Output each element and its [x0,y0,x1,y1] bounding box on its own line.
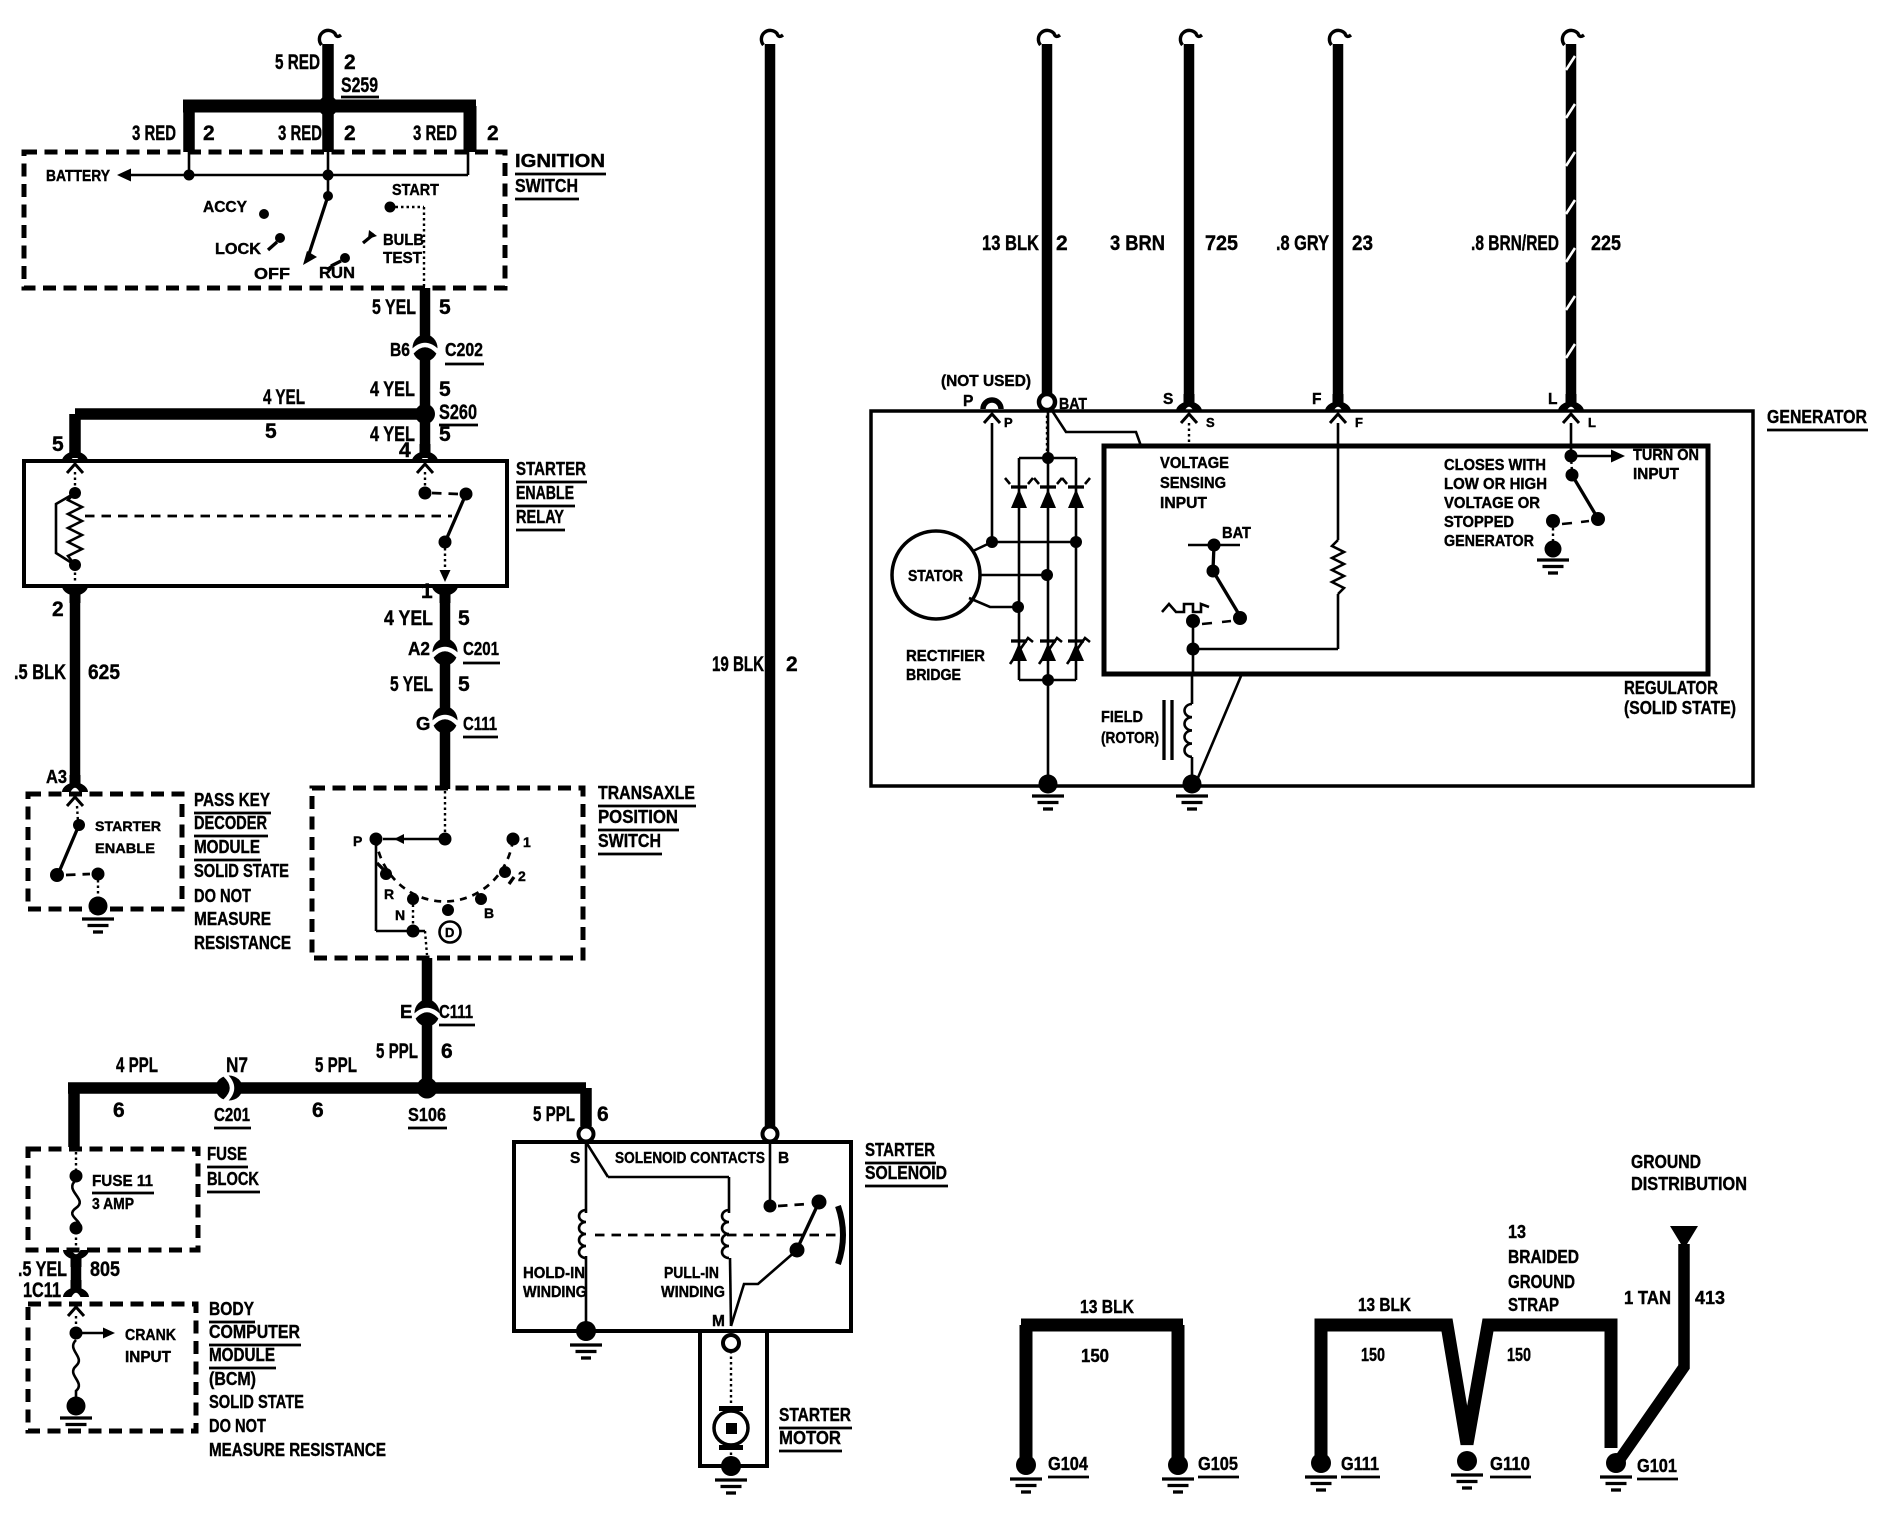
svg-text:MEASURE RESISTANCE: MEASURE RESISTANCE [209,1439,386,1460]
svg-text:3 BRN: 3 BRN [1110,232,1165,255]
svg-text:VOLTAGE: VOLTAGE [1160,455,1229,472]
contact N [395,893,419,923]
svg-text:GROUND: GROUND [1631,1151,1701,1172]
svg-text:STATOR: STATOR [908,568,963,585]
wire .5 YEL 805 fuse to BCM [18,1250,120,1302]
svg-text:(ROTOR): (ROTOR) [1101,730,1159,747]
svg-text:4: 4 [399,439,411,462]
svg-text:.5 YEL: .5 YEL [18,1258,67,1281]
terminal S [1163,391,1215,446]
svg-text:TEST: TEST [383,250,423,267]
svg-text:3 RED: 3 RED [278,122,322,145]
svg-text:R: R [384,886,394,902]
svg-text:D: D [445,925,454,940]
voltage sensing lever [1207,545,1248,625]
svg-text:1: 1 [421,580,433,603]
svg-text:E: E [400,1001,412,1022]
svg-text:(NOT USED): (NOT USED) [941,373,1031,390]
starter enable relay box [24,461,507,586]
svg-text:S260: S260 [439,401,477,424]
svg-text:STARTER: STARTER [779,1404,851,1425]
svg-text:CLOSES WITH: CLOSES WITH [1444,457,1546,474]
svg-text:WINDING: WINDING [523,1284,587,1301]
contact R [377,863,394,902]
terminal BAT [1039,394,1087,455]
svg-text:STARTER: STARTER [95,818,161,834]
svg-text:WINDING: WINDING [661,1284,725,1301]
svg-text:2: 2 [52,598,64,621]
svg-text:150: 150 [1361,1344,1385,1365]
wire 5 YEL below ignition switch [372,288,451,340]
label STARTER MOTOR [779,1404,852,1451]
svg-text:3 RED: 3 RED [132,122,176,145]
diode column 1 [1005,458,1033,680]
ground in regulator [1537,528,1569,573]
svg-text:13: 13 [1508,1221,1526,1242]
svg-text:IGNITION: IGNITION [515,150,605,171]
svg-text:DISTRIBUTION: DISTRIBUTION [1631,1173,1747,1194]
svg-text:DO NOT: DO NOT [194,885,252,906]
svg-text:6: 6 [113,1099,125,1122]
svg-text:2: 2 [344,51,356,74]
svg-text:DO NOT: DO NOT [209,1415,267,1436]
svg-text:BAT: BAT [1222,525,1251,542]
contact D [440,904,461,943]
label 5 RED 2 [275,51,356,74]
contact RUN [319,253,355,282]
svg-text:2: 2 [518,868,526,884]
field rotor winding [1164,676,1192,780]
wire 4 YEL C202 to S260 [370,357,451,407]
splice S259 [318,74,379,116]
fixed contact bar [838,1206,843,1264]
svg-text:SENSING: SENSING [1160,475,1226,492]
svg-text:C111: C111 [463,713,497,734]
svg-text:ENABLE: ENABLE [95,840,155,856]
svg-text:MOTOR: MOTOR [779,1427,841,1448]
ground G101 [1600,1453,1678,1490]
svg-text:S: S [570,1150,580,1167]
svg-text:2: 2 [344,122,356,145]
svg-text:TRANSAXLE: TRANSAXLE [598,782,695,803]
svg-text:1: 1 [523,834,531,850]
label STARTER ENABLE RELAY [516,458,587,530]
svg-text:225: 225 [1591,232,1621,255]
node feed into switch [383,791,452,846]
relay switch [419,487,473,583]
terminal F [1312,391,1363,446]
svg-text:6: 6 [441,1040,453,1063]
svg-text:5: 5 [439,296,451,319]
svg-text:STARTER: STARTER [516,458,586,479]
svg-text:5 PPL: 5 PPL [533,1103,575,1126]
svg-text:(SOLID STATE): (SOLID STATE) [1624,697,1736,718]
svg-text:G101: G101 [1637,1455,1677,1476]
svg-text:13 BLK: 13 BLK [1358,1294,1412,1315]
svg-text:S106: S106 [408,1104,446,1125]
svg-text:A3: A3 [46,766,67,787]
ground G104 [1010,1453,1089,1492]
connector C111 pin E [400,1000,475,1027]
connector C111 pin G [416,707,498,738]
svg-text:P: P [963,393,973,410]
terminal L [1548,391,1596,453]
label CLOSES WITH LOW OR HIGH VOLTAGE OR STOPPED GENERATOR [1444,457,1547,550]
svg-text:6: 6 [312,1099,324,1122]
stator [892,531,980,619]
labels 3 RED 2 [132,122,499,145]
wire .5 BLK 625 relay to A3 [14,586,120,780]
splice S260 [415,401,478,425]
svg-text:FUSE 11: FUSE 11 [92,1173,153,1190]
svg-text:BODY: BODY [209,1298,255,1319]
svg-text:COMPUTER: COMPUTER [209,1321,300,1342]
svg-text:5 RED: 5 RED [275,51,320,74]
svg-text:GROUND: GROUND [1508,1271,1575,1292]
svg-text:A2: A2 [408,638,430,659]
svg-text:.8 GRY: .8 GRY [1276,232,1329,255]
svg-text:4 YEL: 4 YEL [263,386,305,409]
label RECTIFIER BRIDGE [906,648,985,684]
svg-text:(BCM): (BCM) [209,1368,256,1389]
label FIELD (ROTOR) [1101,709,1159,747]
svg-text:BATTERY: BATTERY [46,168,111,185]
contact START [385,182,440,288]
svg-text:G110: G110 [1490,1453,1530,1474]
svg-text:5 PPL: 5 PPL [315,1054,357,1077]
relay actuator dashed link [85,515,452,518]
label IGNITION SWITCH [515,150,606,199]
svg-text:MODULE: MODULE [209,1344,275,1365]
svg-text:FIELD: FIELD [1101,709,1143,726]
svg-text:4 YEL: 4 YEL [370,378,415,401]
ground at hold-in winding [570,1321,602,1358]
svg-text:150: 150 [1507,1344,1531,1365]
svg-text:N7: N7 [226,1054,248,1077]
svg-text:5 YEL: 5 YEL [372,296,416,319]
svg-text:BRAIDED: BRAIDED [1508,1246,1579,1267]
svg-text:INPUT: INPUT [1633,466,1680,483]
svg-text:B: B [484,905,494,921]
svg-text:G: G [416,713,430,734]
svg-text:5: 5 [265,420,277,443]
svg-text:5: 5 [52,433,64,456]
svg-text:S: S [1163,391,1173,408]
pass key decoder module box [28,794,182,909]
lamp driver switch [1546,456,1605,528]
splice S106 [408,1078,447,1129]
svg-text:3 RED: 3 RED [413,122,457,145]
starter solenoid box [514,1142,851,1331]
crank input node [68,1307,115,1340]
rotor contact arc [376,839,513,901]
svg-text:SWITCH: SWITCH [598,830,661,851]
wire 1 TAN 413 [1620,1226,1725,1459]
svg-text:805: 805 [90,1258,120,1281]
svg-text:RECTIFIER: RECTIFIER [906,648,985,665]
ground at starter motor [715,1456,747,1493]
relay coil [56,487,82,581]
svg-text:G104: G104 [1048,1453,1089,1474]
svg-text:B6: B6 [390,339,410,360]
wire 5 PPL to S106 [376,1024,453,1088]
contact LOCK [215,233,285,258]
label 5 PPL 6 right [533,1103,609,1126]
svg-text:413: 413 [1695,1287,1725,1308]
svg-text:6: 6 [597,1103,609,1126]
label CRANK INPUT [125,1327,177,1366]
wire 19 BLK battery feed [712,30,798,1126]
BCM internal resistance to ground [60,1340,92,1431]
svg-text:C201: C201 [463,638,499,659]
voltage sensing switch BAT contact [1188,525,1251,552]
svg-text:DECODER: DECODER [194,812,267,833]
wire 13 BLK G111 to G110 braided strap to G101 [1321,1294,1611,1459]
connector C202 pin B6 [390,335,484,365]
svg-text:C111: C111 [439,1001,473,1022]
svg-text:BLOCK: BLOCK [207,1168,259,1189]
node BATTERY bus [117,152,468,182]
svg-text:P: P [1004,415,1013,430]
svg-text:SOLID STATE: SOLID STATE [209,1391,304,1412]
svg-text:625: 625 [88,661,120,684]
label FUSE 11 3 AMP [92,1173,154,1213]
connector A3 [46,766,88,792]
svg-text:C201: C201 [214,1104,250,1125]
label PULL-IN WINDING [661,1265,725,1301]
svg-text:P: P [353,833,362,849]
contact P [353,833,383,850]
svg-text:STOPPED: STOPPED [1444,514,1514,531]
label HOLD-IN WINDING [523,1265,587,1301]
svg-text:START: START [392,182,439,199]
svg-text:ACCY: ACCY [203,199,248,216]
wire .8 GRY to F [1276,30,1373,396]
ignition switch box [24,152,505,288]
diode column 2 [1034,458,1062,680]
label GROUND DISTRIBUTION [1631,1151,1747,1194]
rectifier bridge bus [1019,412,1076,782]
ground G110 [1451,1451,1531,1488]
svg-text:CRANK: CRANK [125,1327,177,1344]
terminal P (not used) [941,373,1031,542]
ground G111 [1305,1453,1380,1490]
regulator box [1104,446,1708,674]
ground G105 [1162,1453,1239,1492]
svg-text:13 BLK: 13 BLK [1080,1296,1135,1317]
contact 3 [475,893,494,921]
label VOLTAGE SENSING INPUT [1160,455,1229,512]
pulse waveform symbol [1162,604,1209,612]
wire 5 RED feed to S259 [319,30,341,102]
ground at rectifier bridge [1032,775,1064,810]
svg-text:BULB: BULB [383,232,424,249]
wire .8 BRN/RED striped to L [1471,30,1621,396]
svg-text:2: 2 [203,122,215,145]
ground at field [1176,775,1208,810]
svg-text:ENABLE: ENABLE [516,482,574,503]
wire 13 BLK G104 to G105 [1021,1296,1183,1461]
connector C201 pin A2 [408,638,500,666]
contact 1 [507,833,532,851]
label STARTER ENABLE [95,818,161,856]
svg-text:INPUT: INPUT [1160,495,1208,512]
labels 4 PPL N7 5 PPL [113,1054,357,1122]
svg-text:BRIDGE: BRIDGE [906,667,961,684]
ground in pass key module [82,897,114,933]
svg-text:3 AMP: 3 AMP [92,1196,134,1213]
svg-text:5: 5 [458,673,470,696]
svg-text:1C11: 1C11 [23,1279,61,1302]
wire BAT sense to regulator [1051,409,1141,446]
svg-text:SOLENOID: SOLENOID [865,1162,947,1183]
svg-text:5: 5 [458,607,470,630]
wire 13 BLK to BAT [982,30,1068,394]
ignition switch rotor lever [303,175,333,265]
svg-text:PASS KEY: PASS KEY [194,789,271,810]
svg-text:F: F [1355,415,1363,430]
svg-text:5: 5 [439,378,451,401]
generator box [871,411,1753,786]
label SOLENOID CONTACTS S B [570,1150,789,1167]
svg-text:GENERATOR: GENERATOR [1767,406,1867,427]
body computer module box [28,1304,196,1431]
svg-text:1 TAN: 1 TAN [1624,1287,1671,1308]
svg-text:5 PPL: 5 PPL [376,1040,418,1063]
svg-text:REGULATOR: REGULATOR [1624,677,1718,698]
starter enable switch [50,797,105,898]
svg-text:L: L [1588,415,1596,430]
svg-text:23: 23 [1352,232,1373,255]
terminal S white circle [579,1127,594,1142]
svg-text:S259: S259 [341,74,378,97]
stator phase leads [969,536,1082,613]
label BODY COMPUTER MODULE (BCM) [209,1298,386,1460]
svg-text:G111: G111 [1341,1453,1379,1474]
svg-text:5 YEL: 5 YEL [390,673,433,696]
fuse block box [28,1149,198,1250]
svg-text:N: N [395,907,405,923]
svg-text:SOLENOID CONTACTS: SOLENOID CONTACTS [615,1150,765,1167]
starter motor symbol [714,1409,748,1463]
contact ACCY [203,199,269,219]
label REGULATOR (SOLID STATE) [1624,677,1736,718]
solenoid contact switch [731,1142,827,1326]
svg-text:LOW OR HIGH: LOW OR HIGH [1444,476,1547,493]
solenoid plunger dashed link [595,1234,836,1237]
wire P to output [376,839,427,955]
field return diagonal [1197,676,1241,780]
svg-text:19 BLK: 19 BLK [712,653,764,676]
svg-text:RESISTANCE: RESISTANCE [194,932,291,953]
label GENERATOR [1767,406,1868,430]
label TRANSAXLE POSITION SWITCH [598,782,696,854]
svg-text:2: 2 [487,122,499,145]
starter motor enclosure [700,1331,767,1466]
contact BULB TEST [363,230,424,267]
terminal pin 2 [52,586,88,621]
field drive contact [1186,614,1338,676]
svg-text:SOLID STATE: SOLID STATE [194,860,289,881]
svg-text:TURN ON: TURN ON [1633,447,1699,464]
svg-text:SWITCH: SWITCH [515,175,578,196]
turn on input node [1565,447,1700,483]
terminal pin 1 [421,580,458,603]
svg-text:150: 150 [1081,1345,1109,1366]
svg-text:M: M [712,1313,725,1330]
transaxle position switch box [312,788,583,958]
svg-text:LOCK: LOCK [215,241,262,258]
fuse 11 element [70,1152,83,1249]
wire 4 YEL S260 to relay pin 4 [370,414,451,462]
svg-text:GENERATOR: GENERATOR [1444,533,1534,550]
svg-text:INPUT: INPUT [125,1349,172,1366]
svg-text:2: 2 [786,653,798,676]
svg-text:4 YEL: 4 YEL [384,607,433,630]
svg-text:VOLTAGE OR: VOLTAGE OR [1444,495,1540,512]
wire transaxle to C111 E [422,958,433,1002]
connector C201 pin N7 [214,1075,251,1128]
label 13 BRAIDED GROUND STRAP [1508,1221,1579,1315]
svg-text:RELAY: RELAY [516,506,565,527]
svg-text:STARTER: STARTER [865,1139,935,1160]
terminal M [712,1313,739,1409]
svg-text:725: 725 [1205,232,1238,255]
diode column 3 [1062,458,1090,680]
wire 3 RED bus bar from S259 [183,106,476,152]
svg-text:F: F [1312,391,1321,408]
terminal pin 5 [62,444,88,491]
svg-text:4 PPL: 4 PPL [116,1054,158,1077]
terminal B white circle [763,1127,778,1142]
svg-text:OFF: OFF [254,266,290,283]
svg-text:FUSE: FUSE [207,1143,247,1164]
svg-text:PULL-IN: PULL-IN [664,1265,719,1282]
svg-text:HOLD-IN: HOLD-IN [523,1265,585,1282]
label FUSE BLOCK [207,1143,260,1192]
svg-text:BAT: BAT [1059,396,1087,413]
svg-text:2: 2 [1056,232,1068,255]
label PASS KEY DECODER MODULE (side text) [194,789,291,953]
svg-text:G105: G105 [1198,1453,1238,1474]
wire 5 YEL C201 to C111 [390,663,470,709]
svg-text:.5 BLK: .5 BLK [14,661,66,684]
wire 4 PPL / 5 PPL horizontal run [68,1088,586,1147]
svg-text:MEASURE: MEASURE [194,908,271,929]
svg-text:STRAP: STRAP [1508,1294,1559,1315]
svg-text:RUN: RUN [319,265,355,282]
svg-text:MODULE: MODULE [194,836,260,857]
svg-text:S: S [1206,415,1215,430]
svg-text:C202: C202 [445,339,483,360]
svg-text:5: 5 [439,423,451,446]
svg-text:POSITION: POSITION [598,806,678,827]
label STARTER SOLENOID [865,1139,948,1186]
svg-text:.8 BRN/RED: .8 BRN/RED [1471,232,1559,255]
terminal pin 4 [412,444,438,491]
svg-text:L: L [1548,391,1557,408]
wire 4 YEL branch bar to relay pin 5 [52,386,425,458]
wire 3 BRN to S [1110,30,1238,396]
pull-in winding branch [586,1142,731,1326]
hold-in winding [579,1142,586,1329]
wire C111 to transaxle switch [440,731,451,789]
field sense resistor [1332,446,1344,649]
svg-text:13 BLK: 13 BLK [982,232,1039,255]
wire 4 YEL relay pin1 to C201 [384,586,470,641]
contact 2 [499,866,526,884]
svg-text:B: B [778,1150,789,1167]
